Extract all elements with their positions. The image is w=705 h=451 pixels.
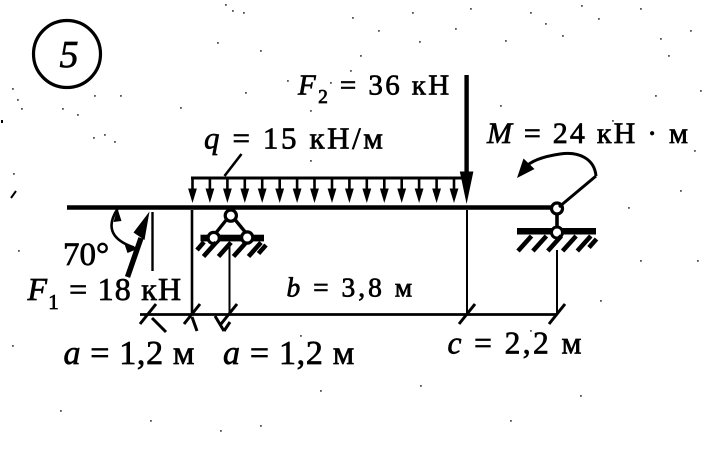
svg-text:M = 24 кН · м: M = 24 кН · м <box>486 117 690 150</box>
svg-text:a = 1,2 м: a = 1,2 м <box>223 335 355 372</box>
svg-text:c = 2,2 м: c = 2,2 м <box>448 326 584 361</box>
svg-text:b = 3,8 м: b = 3,8 м <box>287 272 416 303</box>
svg-text:a = 1,2 м: a = 1,2 м <box>64 335 196 372</box>
svg-text:5: 5 <box>60 34 79 76</box>
svg-text:q = 15 кН/м: q = 15 кН/м <box>204 121 386 156</box>
svg-text:70°: 70° <box>63 237 109 273</box>
